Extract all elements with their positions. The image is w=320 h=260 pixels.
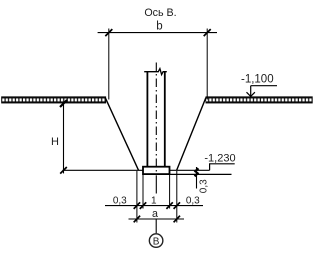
axis leader line [155, 219, 157, 233]
tick dim1 c [166, 202, 172, 209]
level mark -1,100 shelf [251, 85, 277, 87]
tick b left [105, 29, 112, 36]
column break line [144, 69, 167, 75]
extension line slope bottom right [176, 171, 178, 223]
extension line b right [206, 29, 208, 100]
pit right slope [177, 98, 206, 171]
tick dim1 b [140, 202, 146, 209]
tick a right [174, 216, 180, 223]
extension line slope bottom left [136, 171, 138, 223]
dimension line b [98, 32, 217, 34]
footing bottom extension line [170, 173, 232, 175]
column centerline [155, 61, 157, 173]
level mark -1,100 arrow [247, 86, 255, 97]
svg-text:0,3: 0,3 [113, 196, 127, 207]
extension line plate left [142, 175, 144, 209]
extension line plate right [169, 175, 171, 209]
H bottom tick [60, 167, 67, 174]
svg-text:Ось В.: Ось В. [144, 7, 176, 19]
vertical dim line 0,3 [196, 167, 198, 189]
column right edge [164, 72, 166, 167]
axis bubble circle [149, 234, 163, 248]
tick dim1 a [134, 202, 140, 209]
svg-text:a: a [152, 208, 158, 220]
level mark -1,230 step [210, 164, 235, 171]
svg-text:-1,230: -1,230 [204, 152, 235, 164]
pit bottom line [63, 169, 210, 171]
dimension line a [129, 218, 185, 220]
extension line b left [108, 29, 110, 100]
ground band right [206, 97, 313, 103]
level tick -1,230 [195, 168, 199, 172]
svg-text:1: 1 [151, 196, 157, 207]
ground band left [2, 97, 106, 103]
H dimension line [63, 103, 65, 173]
tick b right [204, 29, 211, 36]
svg-text:H: H [51, 136, 59, 148]
svg-text:-1,100: -1,100 [241, 74, 274, 86]
tick dim1 d [174, 202, 180, 209]
tick a left [134, 216, 140, 223]
svg-text:0,3: 0,3 [199, 179, 210, 193]
dimension line 0,3 1 0,3 [105, 205, 203, 207]
column left edge [146, 72, 148, 167]
svg-text:b: b [156, 21, 162, 33]
svg-text:0,3: 0,3 [186, 196, 200, 207]
svg-text:В: В [153, 236, 160, 247]
footing plate [143, 167, 170, 174]
tick footing bottom [195, 173, 199, 177]
H top arrow tick [60, 100, 67, 107]
pit left slope [105, 98, 138, 171]
